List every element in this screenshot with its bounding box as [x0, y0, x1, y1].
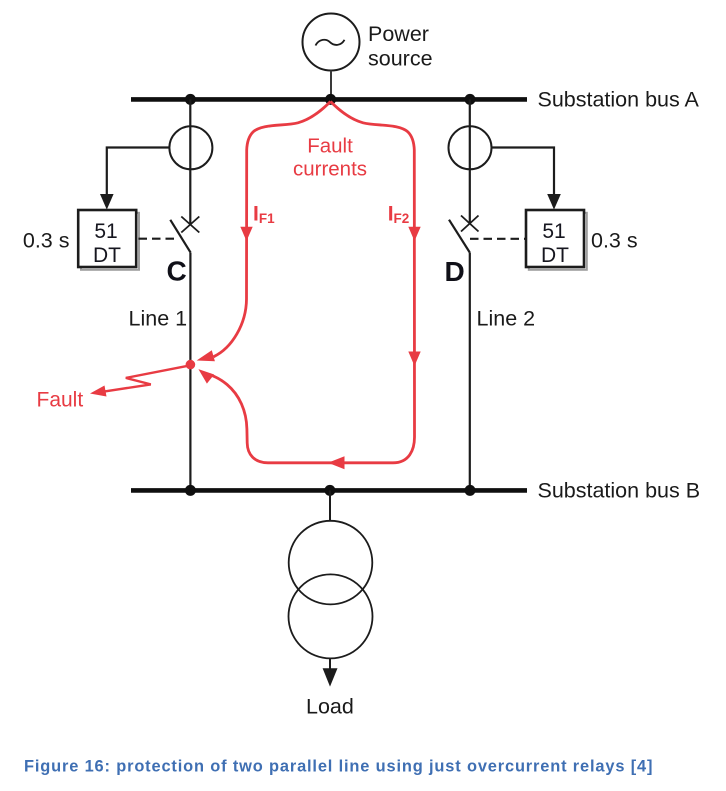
svg-text:51: 51 [542, 220, 565, 243]
arrowhead bottom return [328, 456, 345, 469]
svg-text:Substation bus A: Substation bus A [538, 88, 700, 112]
node bus B / transformer [324, 485, 335, 496]
wire line 2 upper [469, 99, 471, 223]
bus A [131, 97, 527, 102]
breaker D blade [449, 220, 470, 253]
wire transformer to load [329, 658, 331, 670]
breaker C contact cross [181, 217, 199, 233]
wire CT1 to relay [107, 148, 170, 196]
svg-text:IF2: IF2 [388, 203, 410, 227]
svg-text:DT: DT [541, 244, 569, 267]
arrowhead into relay 1 [100, 194, 114, 210]
svg-text:Fault: Fault [307, 135, 353, 158]
breaker C blade [170, 220, 190, 253]
relay U2 51 DT [526, 210, 584, 267]
node bus B / line 1 [185, 485, 196, 496]
power source G1 [303, 14, 360, 71]
svg-text:Figure 16: protection of two p: Figure 16: protection of two parallel li… [24, 758, 653, 776]
svg-text:Line 2: Line 2 [477, 307, 536, 331]
wire CT2 to relay [492, 148, 555, 196]
svg-text:Power: Power [368, 22, 429, 46]
svg-text:IF1: IF1 [253, 203, 275, 227]
relay box shadow 1 [81, 213, 139, 270]
wire line 1 upper [189, 99, 191, 224]
svg-text:DT: DT [93, 244, 121, 267]
svg-text:Load: Load [306, 695, 354, 719]
breaker D contact cross [461, 216, 479, 232]
svg-text:Fault: Fault [37, 388, 84, 411]
bus B [131, 488, 527, 493]
svg-text:currents: currents [293, 158, 367, 181]
node bus A / line 1 [185, 94, 196, 105]
dashed trip wire relay 2 to breaker D [470, 238, 525, 240]
node bus A / source [325, 94, 336, 105]
svg-text:D: D [445, 256, 465, 287]
relay U1 51 DT [78, 210, 136, 267]
fault current path IF1 [214, 102, 331, 357]
svg-text:C: C [167, 256, 187, 287]
svg-text:0.3 s: 0.3 s [591, 229, 638, 253]
svg-text:0.3 s: 0.3 s [23, 229, 70, 253]
arrowhead IF1 at fault [197, 350, 215, 361]
arrowhead IF2 at fault [198, 369, 214, 384]
wire source to bus A [330, 71, 332, 98]
svg-text:Line 1: Line 1 [129, 307, 188, 331]
CT current transformer on line 2 [449, 126, 492, 169]
wire bus B to transformer [329, 490, 331, 521]
relay box shadow 2 [529, 213, 587, 270]
fault current path IF2 [210, 102, 415, 463]
svg-text:Substation bus B: Substation bus B [538, 478, 701, 502]
svg-text:source: source [368, 47, 433, 71]
arrowhead load [323, 668, 338, 686]
arrowhead IF2 mid [408, 227, 420, 241]
transformer T1 [289, 521, 373, 659]
fault lightning arrow [99, 365, 191, 392]
CT current transformer on line 1 [169, 126, 212, 169]
wire line 1 lower [189, 253, 191, 489]
dashed trip wire relay 1 to breaker C [139, 238, 177, 240]
arrowhead IF2 lower [408, 352, 420, 367]
arrowhead IF1 mid [240, 227, 252, 241]
wire line 2 lower [469, 252, 471, 488]
arrowhead into relay 2 [547, 194, 561, 210]
node fault point [186, 360, 196, 370]
node bus B / line 2 [465, 485, 476, 496]
svg-text:51: 51 [94, 220, 117, 243]
node bus A / line 2 [465, 94, 476, 105]
